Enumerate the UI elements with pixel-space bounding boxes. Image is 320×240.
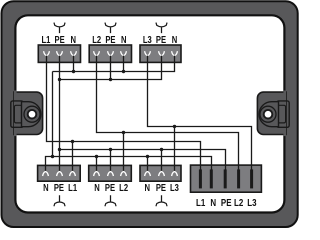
svg-text:N: N — [172, 34, 178, 45]
svg-text:L2: L2 — [234, 197, 243, 208]
svg-text:PE: PE — [55, 34, 65, 45]
svg-text:L2: L2 — [119, 182, 128, 193]
svg-text:PE: PE — [221, 197, 232, 208]
svg-text:N: N — [43, 182, 49, 193]
svg-text:L2: L2 — [92, 34, 101, 45]
svg-text:N: N — [70, 34, 76, 45]
svg-text:PE: PE — [105, 182, 115, 193]
svg-text:L1: L1 — [196, 197, 205, 208]
svg-text:PE: PE — [156, 182, 166, 193]
svg-text:PE: PE — [54, 182, 64, 193]
svg-text:N: N — [121, 34, 127, 45]
svg-text:PE: PE — [105, 34, 115, 45]
svg-text:N: N — [145, 182, 151, 193]
svg-text:L1: L1 — [41, 34, 50, 45]
svg-text:L3: L3 — [170, 182, 179, 193]
svg-text:L1: L1 — [68, 182, 77, 193]
svg-text:N: N — [94, 182, 100, 193]
svg-text:N: N — [210, 197, 216, 208]
svg-text:PE: PE — [156, 34, 166, 45]
svg-text:L3: L3 — [143, 34, 152, 45]
svg-text:L3: L3 — [247, 197, 256, 208]
